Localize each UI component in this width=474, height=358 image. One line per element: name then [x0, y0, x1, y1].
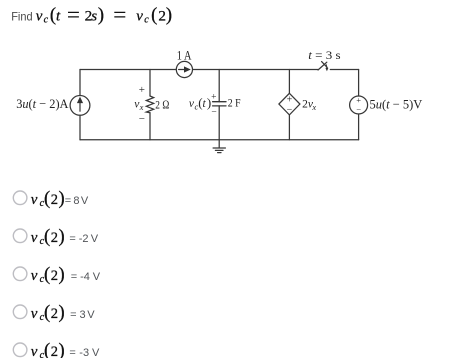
current source I1 3u(t-2)A	[70, 96, 90, 116]
svg-text:=-3V: =-3V	[69, 347, 100, 358]
label 1A	[177, 48, 192, 62]
label 2vx	[302, 99, 316, 112]
capacitor C1 2F	[213, 102, 226, 106]
label 2F	[228, 98, 241, 110]
svg-text:=8V: =8V	[65, 195, 89, 207]
label 3u(t-2)A	[16, 96, 69, 111]
svg-text:v: v	[31, 192, 38, 208]
voltage source V1 5u(t-5)V	[350, 96, 368, 114]
svg-text:2: 2	[51, 230, 58, 246]
svg-text:x: x	[311, 102, 316, 112]
label diamond plus	[287, 95, 293, 106]
wire left branch	[79, 70, 81, 140]
switch SW1 opens t=3s	[318, 62, 328, 72]
option 4 math vc(2) = 3 V	[31, 303, 96, 323]
svg-text:2: 2	[51, 306, 58, 322]
svg-text:v: v	[31, 306, 38, 322]
svg-text:=3V: =3V	[70, 309, 95, 321]
option 3 math vc(2) = -4 V	[31, 265, 101, 285]
svg-text:+: +	[211, 93, 216, 103]
ground	[213, 140, 225, 153]
option 2 math vc(2) = -2 V	[31, 227, 99, 247]
svg-text:vt: vt	[36, 9, 61, 25]
svg-text:−: −	[211, 108, 216, 118]
label 5u(t-5)V	[370, 96, 423, 111]
svg-text:=-2V: =-2V	[69, 233, 98, 245]
option 1 radio	[13, 191, 27, 205]
svg-text:+: +	[139, 84, 145, 96]
svg-text:Find: Find	[11, 10, 32, 24]
svg-text:2 Ω: 2 Ω	[155, 97, 169, 111]
label vc(t)	[189, 95, 211, 111]
svg-text:c: c	[44, 14, 49, 25]
svg-text:2: 2	[158, 7, 166, 24]
option 5 radio	[13, 343, 27, 357]
label vx	[134, 99, 143, 112]
label V1 plus	[356, 95, 361, 105]
wire top left segment	[80, 69, 176, 71]
wire top right segment	[330, 69, 358, 71]
label t=3s	[308, 48, 341, 62]
label vx plus	[139, 84, 145, 96]
label vc minus	[211, 108, 216, 118]
svg-text:2 F: 2 F	[228, 98, 241, 110]
wire capacitor branch	[218, 70, 220, 140]
svg-text:−: −	[287, 104, 293, 115]
svg-text:c: c	[144, 14, 149, 25]
svg-text:v: v	[31, 268, 38, 284]
wire diamond branch	[288, 70, 290, 140]
label diamond minus	[287, 104, 293, 115]
option 1 math vc(2) = 8 V	[31, 189, 89, 209]
svg-text:−: −	[139, 113, 145, 125]
wire bottom	[80, 139, 359, 141]
svg-text:5u(t − 5)V: 5u(t − 5)V	[370, 96, 423, 111]
wire right branch	[358, 70, 360, 140]
svg-text:1 A: 1 A	[177, 48, 192, 62]
option 4 radio	[13, 305, 27, 319]
svg-text:−: −	[356, 104, 361, 114]
label vx minus	[139, 113, 145, 125]
svg-text:=-4V: =-4V	[71, 271, 101, 283]
label vc plus	[211, 93, 216, 103]
label V1 minus	[356, 104, 361, 114]
svg-text:v: v	[136, 9, 143, 25]
option 2 radio	[13, 229, 27, 243]
wire resistor branch	[149, 70, 151, 140]
wire top middle segment	[193, 69, 319, 71]
svg-text:3u(t − 2)A: 3u(t − 2)A	[16, 96, 69, 111]
current source I2 1A	[176, 61, 192, 77]
svg-text:v: v	[31, 344, 38, 358]
resistor R1 2ohm	[146, 96, 153, 113]
question title: Find vc(t = 2s) = vc(2)	[11, 6, 172, 26]
svg-text:t = 3 s: t = 3 s	[308, 48, 341, 62]
option 5 math vc(2) = -3 V	[31, 341, 100, 358]
svg-text:2: 2	[51, 268, 58, 284]
dependent source U1 2vx diamond	[279, 93, 300, 115]
svg-text:s: s	[91, 8, 97, 24]
svg-text:2: 2	[51, 192, 58, 208]
option 3 radio	[13, 267, 27, 281]
svg-text:t: t	[203, 98, 207, 110]
label 2ohm	[155, 97, 169, 111]
svg-text:2: 2	[51, 344, 58, 358]
svg-text:v: v	[31, 230, 38, 246]
svg-text:x: x	[139, 102, 144, 112]
